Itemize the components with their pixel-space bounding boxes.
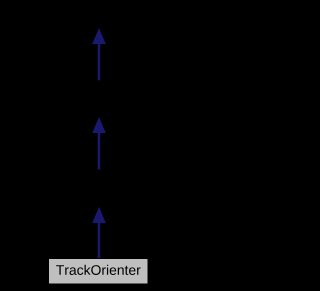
node TrackOrienter: box [49, 259, 149, 285]
inheritance arrow 2: shaft [98, 132, 101, 169]
inheritance arrow 1: shaft [98, 43, 101, 80]
inheritance arrow 1 (topmost edge): arrowhead [92, 28, 106, 44]
inheritance diagram for class TrackOrienter [0, 0, 197, 291]
node TrackOrienter: label [56, 265, 140, 275]
inheritance arrow 2 (middle edge): arrowhead [92, 117, 106, 133]
inheritance arrow 3 (bottom edge): arrowhead [92, 207, 106, 223]
inheritance arrow 3: shaft [98, 223, 101, 259]
